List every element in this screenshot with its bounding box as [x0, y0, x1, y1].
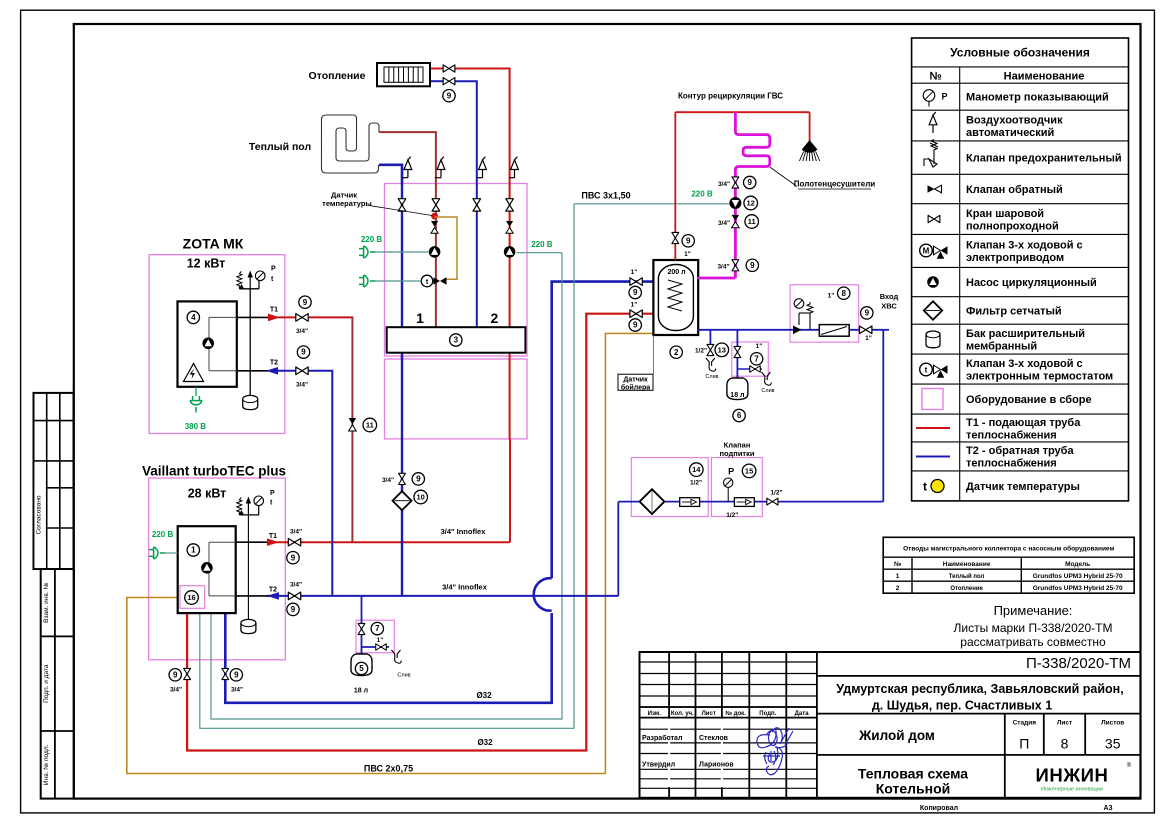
svg-text:Инв. № подл.: Инв. № подл. [43, 744, 50, 785]
svg-text:Утвердил: Утвердил [642, 762, 675, 769]
svg-text:Наименование: Наименование [1004, 70, 1085, 82]
svg-text:Т2: Т2 [269, 587, 277, 594]
svg-text:P: P [271, 266, 276, 273]
svg-text:1": 1" [631, 269, 638, 276]
svg-text:1/2": 1/2" [726, 512, 738, 519]
svg-text:П: П [1019, 736, 1029, 752]
svg-text:Лист: Лист [702, 711, 716, 717]
svg-text:Т1 - подающая труба: Т1 - подающая труба [966, 417, 1081, 429]
svg-text:Наименование: Наименование [943, 561, 991, 568]
svg-text:9: 9 [747, 178, 752, 187]
svg-text:200 л: 200 л [667, 269, 685, 276]
svg-text:3/4": 3/4" [296, 328, 308, 335]
svg-text:1: 1 [191, 546, 196, 555]
svg-text:Листов: Листов [1101, 719, 1124, 726]
svg-text:3/4": 3/4" [718, 220, 730, 227]
svg-text:P: P [270, 490, 275, 497]
svg-text:Отопление: Отопление [950, 586, 983, 592]
svg-text:Т2 - обратная труба: Т2 - обратная труба [966, 445, 1074, 457]
svg-text:14: 14 [692, 465, 701, 474]
svg-text:Датчик: Датчик [623, 376, 648, 383]
svg-text:1/2": 1/2" [770, 490, 782, 497]
svg-text:3/4" Innoflex: 3/4" Innoflex [441, 527, 487, 536]
svg-text:1": 1" [865, 335, 872, 342]
svg-text:1/2": 1/2" [695, 348, 707, 355]
svg-text:1": 1" [684, 251, 691, 258]
svg-text:ИНЖИН: ИНЖИН [1035, 765, 1108, 786]
svg-text:ПВС 3х1,50: ПВС 3х1,50 [581, 191, 630, 201]
svg-text:1": 1" [377, 637, 384, 644]
svg-text:9: 9 [633, 321, 638, 330]
svg-text:Согласовано: Согласовано [36, 495, 43, 534]
svg-text:Клапан обратный: Клапан обратный [966, 184, 1063, 196]
svg-text:Насос циркуляционный: Насос циркуляционный [966, 277, 1097, 289]
svg-text:Копировал: Копировал [920, 805, 958, 812]
svg-text:Разработал: Разработал [642, 734, 682, 742]
svg-text:Слив: Слив [397, 673, 410, 679]
svg-text:Т2: Т2 [270, 360, 278, 367]
svg-text:12 кВт: 12 кВт [187, 257, 226, 271]
svg-text:№: № [894, 561, 901, 568]
svg-text:теплоснабжения: теплоснабжения [966, 429, 1057, 441]
svg-text:Т1: Т1 [269, 533, 277, 540]
svg-text:1": 1" [756, 343, 763, 350]
svg-text:220 В: 220 В [152, 530, 174, 539]
svg-text:3/4": 3/4" [290, 529, 302, 536]
svg-text:Модель: Модель [1065, 561, 1090, 568]
svg-text:18 л: 18 л [730, 392, 744, 399]
svg-text:Взам. инв. №: Взам. инв. № [43, 583, 50, 623]
svg-text:3/4": 3/4" [170, 687, 182, 694]
svg-text:Оборудование в сборе: Оборудование в сборе [966, 394, 1092, 406]
svg-text:мембранный: мембранный [966, 340, 1037, 352]
svg-text:электроприводом: электроприводом [966, 252, 1064, 264]
svg-text:9: 9 [633, 288, 638, 297]
svg-text:10: 10 [417, 493, 425, 502]
svg-text:Лист: Лист [1057, 719, 1072, 726]
svg-text:Вход: Вход [880, 292, 899, 301]
svg-text:Ларионов: Ларионов [699, 762, 734, 769]
svg-text:Р: Р [728, 467, 734, 477]
svg-text:Grundfos UPM3 Hybrid 25-70: Grundfos UPM3 Hybrid 25-70 [1033, 585, 1123, 592]
svg-text:1: 1 [896, 573, 900, 580]
svg-text:подпитки: подпитки [720, 449, 755, 458]
svg-text:3/4": 3/4" [717, 264, 729, 271]
svg-text:220 В: 220 В [531, 240, 553, 249]
svg-text:Стадия: Стадия [1013, 719, 1037, 726]
svg-text:Р: Р [942, 92, 948, 102]
svg-text:15: 15 [745, 467, 753, 476]
svg-text:Листы марки П-338/2020-ТМ: Листы марки П-338/2020-ТМ [954, 621, 1113, 635]
svg-text:2: 2 [896, 585, 900, 592]
svg-text:9: 9 [291, 605, 296, 614]
svg-text:28 кВт: 28 кВт [188, 487, 227, 501]
svg-text:16: 16 [187, 593, 195, 602]
svg-text:Vaillant turboTEC plus: Vaillant turboTEC plus [142, 463, 286, 478]
svg-text:3: 3 [454, 336, 459, 345]
svg-text:Полотенцесушители: Полотенцесушители [794, 180, 875, 189]
svg-text:Grundfos UPM3 Hybrid 25-70: Grundfos UPM3 Hybrid 25-70 [1033, 573, 1123, 580]
svg-text:3/4" Innoflex: 3/4" Innoflex [442, 583, 488, 592]
svg-text:Воздухоотводчик: Воздухоотводчик [966, 114, 1063, 126]
svg-text:Бак расширительный: Бак расширительный [966, 328, 1085, 340]
svg-text:ХВС: ХВС [881, 302, 897, 311]
svg-text:Стеклов: Стеклов [699, 735, 729, 742]
svg-text:д. Шудья, пер. Счастливых 1: д. Шудья, пер. Счастливых 1 [872, 699, 1052, 713]
svg-text:380 В: 380 В [185, 422, 207, 431]
svg-text:Подп. и дата: Подп. и дата [43, 664, 50, 703]
svg-text:№ док.: № док. [725, 710, 746, 717]
svg-text:Теплый пол: Теплый пол [949, 573, 985, 580]
svg-text:ZOTA МК: ZOTA МК [183, 236, 244, 252]
svg-text:12: 12 [747, 199, 755, 208]
svg-text:11: 11 [748, 217, 756, 226]
svg-text:Изм.: Изм. [648, 711, 662, 717]
svg-text:2: 2 [674, 348, 679, 357]
svg-text:3/4": 3/4" [290, 582, 302, 589]
svg-text:Манометр показывающий: Манометр показывающий [966, 92, 1109, 104]
svg-text:Котельной: Котельной [876, 781, 951, 797]
svg-text:9: 9 [416, 475, 421, 484]
svg-text:Слив: Слив [705, 374, 718, 380]
svg-text:220 В: 220 В [361, 235, 383, 244]
svg-text:Фильтр сетчатый: Фильтр сетчатый [966, 305, 1062, 317]
svg-text:11: 11 [366, 421, 374, 430]
svg-text:9: 9 [447, 91, 452, 100]
svg-text:Дата: Дата [795, 711, 810, 717]
svg-text:Кол. уч.: Кол. уч. [671, 711, 694, 717]
svg-text:Тепловая схема: Тепловая схема [858, 766, 968, 782]
svg-text:9: 9 [291, 553, 296, 562]
svg-text:9: 9 [865, 309, 870, 318]
svg-text:ПВС 2х0,75: ПВС 2х0,75 [364, 764, 413, 774]
svg-text:9: 9 [173, 670, 178, 679]
svg-text:3/4": 3/4" [231, 687, 243, 694]
svg-text:9: 9 [234, 670, 239, 679]
svg-text:7: 7 [375, 624, 380, 633]
svg-text:18 л: 18 л [354, 688, 368, 695]
svg-text:Клапан предохранительный: Клапан предохранительный [966, 153, 1122, 165]
svg-text:Удмуртская республика, Завьяло: Удмуртская республика, Завьяловский райо… [836, 682, 1123, 696]
svg-text:9: 9 [303, 298, 308, 307]
svg-text:1: 1 [416, 310, 424, 326]
svg-text:Отопление: Отопление [309, 70, 366, 82]
svg-text:Жилой дом: Жилой дом [858, 728, 935, 743]
svg-text:Ø32: Ø32 [477, 738, 493, 747]
svg-text:П-338/2020-ТМ: П-338/2020-ТМ [1026, 655, 1131, 672]
svg-text:Контур рециркуляции ГВС: Контур рециркуляции ГВС [678, 92, 783, 101]
svg-text:220 В: 220 В [691, 190, 713, 199]
svg-text:Кран шаровой: Кран шаровой [966, 208, 1044, 220]
svg-text:4: 4 [191, 313, 196, 322]
svg-text:2: 2 [491, 310, 499, 326]
svg-text:бойлера: бойлера [621, 383, 650, 391]
svg-text:1": 1" [828, 293, 835, 300]
svg-text:9: 9 [750, 261, 755, 270]
svg-text:Датчик температуры: Датчик температуры [966, 481, 1080, 493]
svg-text:35: 35 [1105, 736, 1121, 752]
svg-text:t: t [925, 366, 928, 375]
svg-text:Слив: Слив [761, 388, 774, 394]
svg-text:Клапан 3-х ходовой с: Клапан 3-х ходовой с [966, 240, 1083, 252]
svg-text:Теплый пол: Теплый пол [249, 141, 311, 153]
svg-text:температуры: температуры [322, 199, 372, 208]
svg-text:9: 9 [686, 236, 691, 245]
svg-text:9: 9 [301, 348, 306, 357]
svg-text:Отводы магистрального коллекто: Отводы магистрального коллектора с насос… [903, 545, 1114, 553]
svg-text:6: 6 [737, 411, 742, 420]
svg-text:Подп.: Подп. [759, 711, 776, 717]
svg-text:М: М [923, 247, 930, 256]
svg-text:5: 5 [359, 664, 364, 673]
svg-text:Т1: Т1 [270, 307, 278, 314]
svg-text:8: 8 [1061, 736, 1069, 752]
svg-text:№: № [929, 70, 941, 82]
svg-text:автоматический: автоматический [966, 127, 1054, 139]
svg-text:А3: А3 [1104, 805, 1113, 812]
svg-text:8: 8 [841, 289, 846, 298]
svg-text:Условные обозначения: Условные обозначения [950, 46, 1090, 60]
svg-text:3/4": 3/4" [296, 382, 308, 389]
svg-text:3/4": 3/4" [382, 477, 394, 484]
svg-text:13: 13 [718, 345, 726, 354]
svg-text:теплоснабжения: теплоснабжения [966, 458, 1057, 470]
svg-text:Клапан 3-х ходовой с: Клапан 3-х ходовой с [966, 358, 1083, 370]
svg-text:®: ® [1127, 762, 1132, 769]
svg-text:3/4": 3/4" [718, 181, 730, 188]
svg-text:Ø32: Ø32 [476, 691, 492, 700]
svg-text:1/2": 1/2" [690, 480, 702, 487]
svg-text:полнопроходной: полнопроходной [966, 220, 1059, 232]
svg-text:Примечание:: Примечание: [994, 603, 1073, 618]
svg-text:7: 7 [754, 354, 759, 363]
svg-text:рассматривать совместно: рассматривать совместно [960, 635, 1106, 649]
svg-text:электронным термостатом: электронным термостатом [966, 370, 1113, 382]
svg-text:t: t [923, 480, 927, 494]
svg-text:1": 1" [631, 302, 638, 309]
svg-text:Инженерные инновации: Инженерные инновации [1041, 787, 1103, 793]
